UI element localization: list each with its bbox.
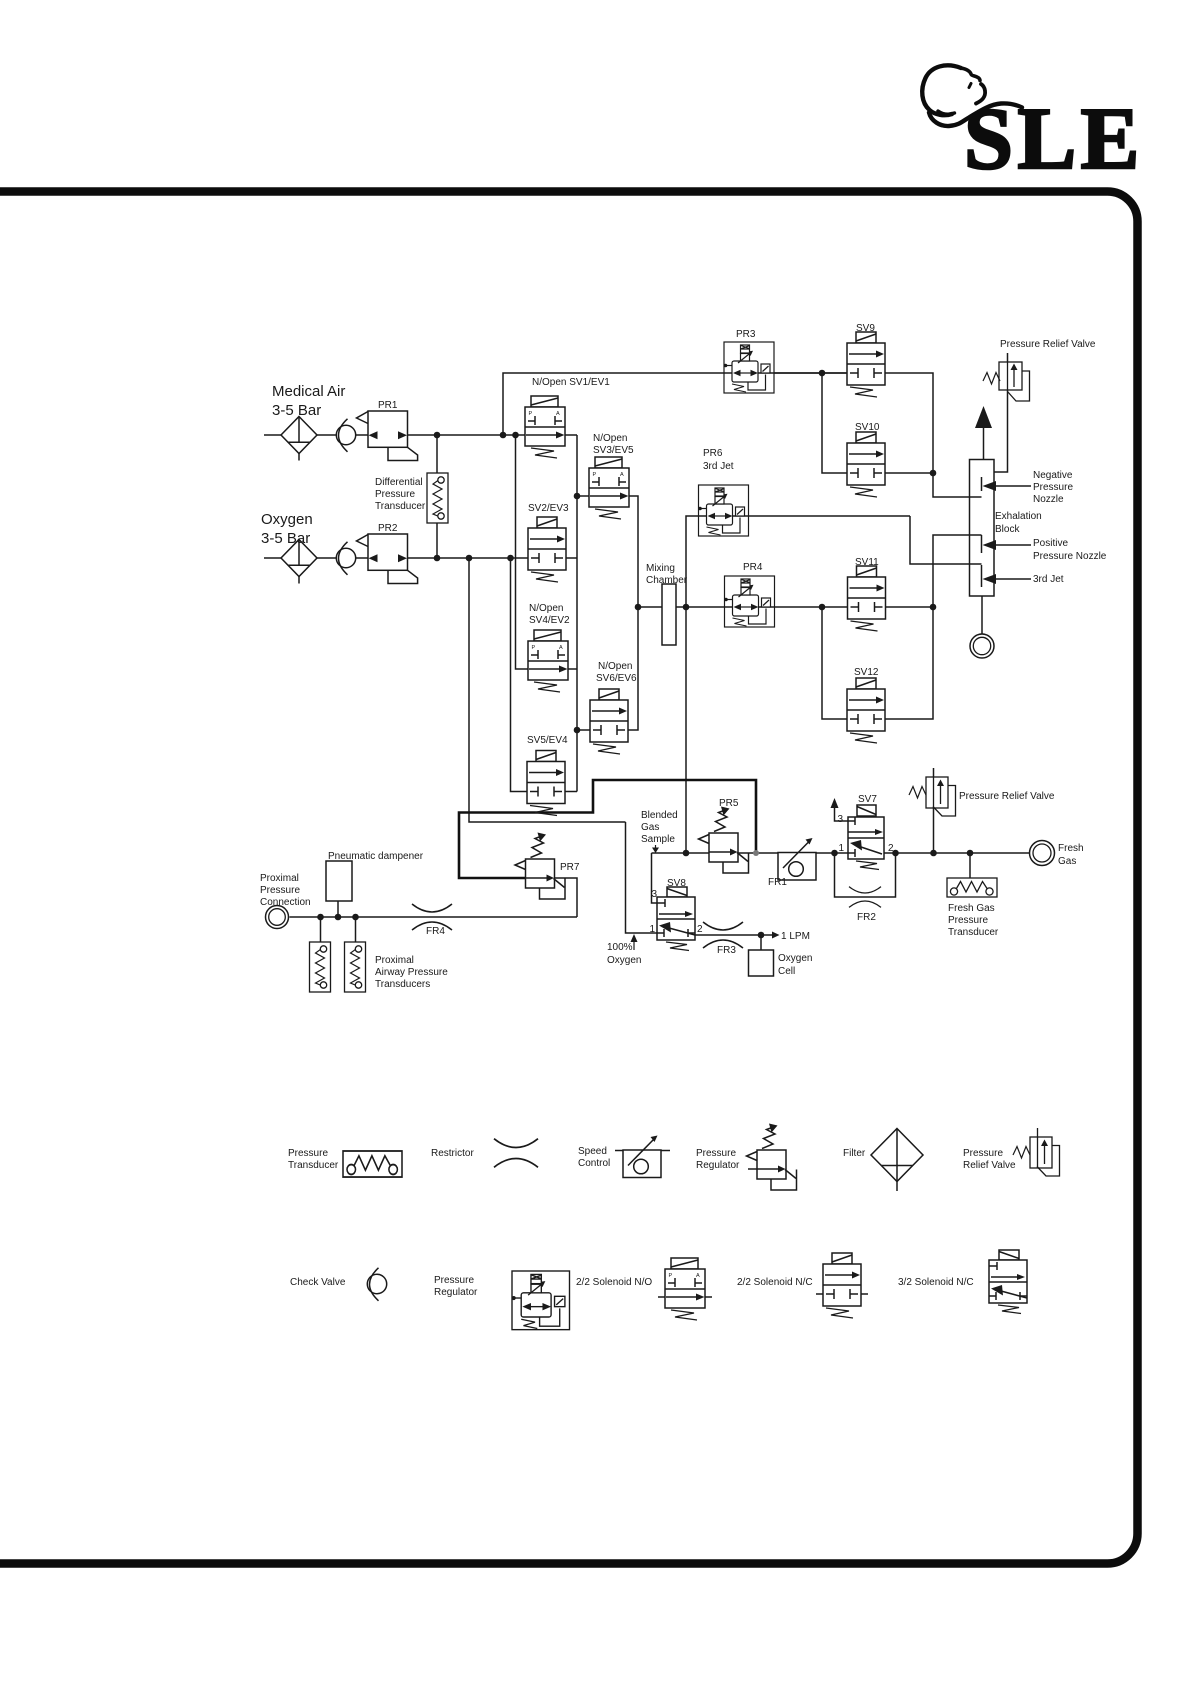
wire PR6 out drop to exhalation block	[910, 516, 982, 564]
svg-text:Pressure: Pressure	[260, 885, 300, 896]
svg-text:3rd Jet: 3rd Jet	[703, 461, 734, 472]
wire oxygen cell stem	[760, 935, 762, 950]
wire SV4 feed vertical	[516, 435, 529, 669]
svg-text:SV7: SV7	[858, 794, 877, 805]
wire positive nozzle feed	[933, 535, 982, 607]
wire relief valve 1 drop to block	[994, 353, 1008, 472]
svg-text:FR1: FR1	[768, 877, 787, 888]
3rd jet nozzle	[981, 565, 983, 587]
svg-text:Pressure Relief Valve: Pressure Relief Valve	[959, 791, 1055, 802]
wire SV6 input stub	[577, 729, 590, 731]
check valve CV2 oxygen	[336, 542, 355, 575]
svg-text:2: 2	[697, 924, 703, 935]
svg-text:Transducers: Transducers	[375, 979, 430, 990]
solenoid valve SV11	[848, 566, 886, 631]
svg-text:Regulator: Regulator	[434, 1287, 478, 1298]
solenoid valve SV5	[527, 751, 565, 816]
svg-text:Proximal: Proximal	[375, 955, 414, 966]
filter F2 oxygen	[281, 540, 317, 584]
check valve CV1 medical air	[336, 419, 355, 452]
wire SV12 to mixing line	[885, 607, 933, 719]
wire SV8 port2 out	[695, 934, 772, 936]
svg-text:Pressure: Pressure	[288, 1148, 328, 1159]
svg-text:Gas: Gas	[1058, 856, 1076, 867]
pressure regulator PR3	[724, 342, 774, 393]
svg-text:Filter: Filter	[843, 1148, 866, 1159]
svg-text:Speed: Speed	[578, 1146, 607, 1157]
svg-text:Fresh: Fresh	[1058, 843, 1084, 854]
svg-text:SV4/EV2: SV4/EV2	[529, 615, 570, 626]
svg-text:PR5: PR5	[719, 798, 739, 809]
wire SV9 out	[885, 373, 982, 497]
svg-text:Sample: Sample	[641, 834, 675, 845]
wire PR3 out to SV9	[774, 372, 847, 374]
blended gas sample pointer	[655, 845, 657, 848]
svg-text:3: 3	[837, 814, 843, 825]
svg-text:FR2: FR2	[857, 912, 876, 923]
wire SV1 out vertical distribution	[576, 435, 578, 792]
wire exhalation block vent stem	[983, 426, 985, 460]
svg-text:PR2: PR2	[378, 523, 398, 534]
svg-text:SV10: SV10	[855, 422, 880, 433]
restrictor FR2	[849, 887, 881, 908]
oxygen cell box	[749, 950, 774, 976]
svg-text:SV8: SV8	[667, 878, 686, 889]
fresh gas port circle	[1030, 841, 1055, 866]
differential pressure transducer	[427, 473, 448, 523]
svg-text:Pneumatic dampener: Pneumatic dampener	[328, 851, 424, 862]
svg-text:Mixing: Mixing	[646, 563, 675, 574]
solenoid valve SV2	[528, 517, 566, 582]
svg-text:Pressure: Pressure	[375, 489, 415, 500]
wire medical air line	[264, 434, 577, 436]
svg-text:SV5/EV4: SV5/EV4	[527, 735, 568, 746]
svg-text:SV9: SV9	[856, 323, 875, 334]
svg-text:Fresh Gas: Fresh Gas	[948, 903, 995, 914]
svg-text:PR1: PR1	[378, 400, 398, 411]
pressure regulator PR4	[724, 576, 774, 627]
svg-text:2/2 Solenoid N/C: 2/2 Solenoid N/C	[737, 1277, 813, 1288]
solenoid valve SV12	[847, 678, 885, 743]
svg-text:Negative: Negative	[1033, 470, 1073, 481]
svg-text:3: 3	[651, 889, 657, 900]
svg-text:Blended: Blended	[641, 810, 678, 821]
wire 100% oxygen drop to SV8	[626, 822, 658, 933]
svg-text:Check Valve: Check Valve	[290, 1277, 346, 1288]
svg-text:PR6: PR6	[703, 448, 723, 459]
svg-text:Cell: Cell	[778, 966, 795, 977]
svg-text:PR7: PR7	[560, 862, 580, 873]
svg-text:Oxygen: Oxygen	[778, 953, 812, 964]
svg-text:SV11: SV11	[855, 557, 879, 568]
svg-text:Positive: Positive	[1033, 538, 1068, 549]
svg-text:Relief Valve: Relief Valve	[963, 1160, 1016, 1171]
svg-text:Pressure: Pressure	[1033, 482, 1073, 493]
svg-text:Regulator: Regulator	[696, 1160, 740, 1171]
wire SV5 out stub	[565, 791, 577, 793]
svg-text:3/2 Solenoid N/C: 3/2 Solenoid N/C	[898, 1277, 974, 1288]
solenoid valve SV8	[657, 887, 695, 951]
positive pressure nozzle	[981, 535, 983, 553]
pneumatic dampener	[326, 861, 352, 901]
pressure regulator PR7	[515, 833, 565, 900]
svg-text:Oxygen: Oxygen	[261, 511, 313, 528]
svg-text:Proximal: Proximal	[260, 873, 299, 884]
exhalation vent arrow	[975, 406, 992, 428]
wire PR7 thick supply	[459, 780, 756, 878]
wire blended gas drop	[685, 607, 687, 853]
filter F1 medical air	[281, 417, 317, 461]
wire fresh gas line	[652, 852, 1030, 854]
svg-text:Gas: Gas	[641, 822, 659, 833]
wire SV7 port3 exhaust	[835, 806, 849, 821]
svg-text:1 LPM: 1 LPM	[781, 931, 810, 942]
wire SV3 out to mixing chamber riser	[628, 496, 638, 730]
svg-text:Exhalation: Exhalation	[995, 511, 1042, 522]
svg-text:Control: Control	[578, 1158, 610, 1169]
solenoid valve SV9	[847, 332, 885, 397]
svg-text:Transducer: Transducer	[948, 927, 999, 938]
svg-text:SLE: SLE	[964, 91, 1144, 188]
svg-text:Connection: Connection	[260, 897, 311, 908]
svg-text:Pressure Relief Valve: Pressure Relief Valve	[1000, 339, 1096, 350]
SLE logo baby-head swoosh	[922, 65, 1022, 126]
wire mixing chamber line to SV11	[638, 606, 933, 608]
pressure relief valve 2	[909, 777, 956, 816]
svg-text:100%: 100%	[607, 942, 633, 953]
wire SV10 out stub	[885, 472, 933, 474]
fresh gas pressure transducer	[947, 878, 997, 897]
1 LPM arrowhead	[772, 932, 780, 939]
proximal airway pressure transducer 2	[345, 942, 366, 992]
wire dampener stem	[337, 901, 339, 917]
wire differential transducer branch	[436, 435, 438, 558]
svg-text:SV12: SV12	[854, 667, 879, 678]
mixing chamber	[662, 584, 676, 645]
svg-text:N/Open: N/Open	[529, 603, 563, 614]
wire SV5 feed vertical	[511, 558, 528, 792]
speed control FR1	[778, 838, 816, 880]
svg-text:3rd Jet: 3rd Jet	[1033, 574, 1064, 585]
solenoid valve SV1	[525, 396, 565, 458]
svg-text:Differential: Differential	[375, 477, 423, 488]
negative pressure nozzle	[981, 477, 983, 491]
svg-text:FR3: FR3	[717, 945, 736, 956]
proximal airway pressure transducer 1	[310, 942, 331, 992]
svg-text:SV2/EV3: SV2/EV3	[528, 503, 569, 514]
svg-text:Pressure: Pressure	[948, 915, 988, 926]
pressure regulator PR6	[698, 485, 748, 536]
wire relief valve 2 drop	[933, 768, 935, 853]
wire SV3 input stub	[577, 495, 589, 497]
100% oxygen pointer	[633, 941, 635, 950]
svg-text:1: 1	[649, 924, 655, 935]
svg-text:Airway Pressure: Airway Pressure	[375, 967, 448, 978]
wire proximal transducer stems	[321, 917, 356, 942]
wire proximal line	[290, 916, 578, 918]
rounded border frame	[0, 192, 1138, 1564]
svg-text:Restrictor: Restrictor	[431, 1148, 474, 1159]
svg-text:3-5 Bar: 3-5 Bar	[261, 530, 310, 547]
svg-text:1: 1	[838, 843, 844, 854]
svg-text:Pressure: Pressure	[963, 1148, 1003, 1159]
solenoid valve SV3	[589, 457, 629, 519]
junction dots	[500, 432, 507, 439]
svg-text:Transducer: Transducer	[288, 1160, 339, 1171]
svg-text:Pressure: Pressure	[434, 1275, 474, 1286]
svg-text:Pressure: Pressure	[696, 1148, 736, 1159]
svg-text:2/2 Solenoid N/O: 2/2 Solenoid N/O	[576, 1277, 652, 1288]
wire FR2 bypass loop	[835, 853, 896, 897]
pressure regulator PR5	[699, 807, 749, 874]
wire blended sample drop to SV8 port3	[652, 853, 658, 903]
svg-text:PR4: PR4	[743, 562, 763, 573]
solenoid valve SV6	[590, 689, 628, 754]
SV7 port3 exhaust arrowhead	[831, 798, 839, 808]
svg-text:Transducer: Transducer	[375, 501, 426, 512]
solenoid valve SV7	[848, 805, 884, 870]
svg-text:Nozzle: Nozzle	[1033, 494, 1064, 505]
svg-text:SV3/EV5: SV3/EV5	[593, 445, 634, 456]
wire PR6 feed riser	[686, 516, 910, 607]
wire fresh gas transducer branch	[969, 853, 971, 878]
svg-text:Block: Block	[995, 524, 1020, 535]
wire oxygen line	[264, 557, 577, 559]
pressure regulator PR2	[357, 534, 418, 584]
svg-text:3-5 Bar: 3-5 Bar	[272, 402, 321, 419]
solenoid valve SV10	[847, 432, 885, 497]
svg-text:Oxygen: Oxygen	[607, 955, 641, 966]
pressure relief valve 1	[983, 362, 1030, 401]
svg-text:PR3: PR3	[736, 329, 756, 340]
wire block to patient port	[981, 596, 983, 634]
wire SV9 SV10 left link	[822, 373, 847, 473]
restrictor FR4	[412, 904, 452, 930]
svg-text:Chamber: Chamber	[646, 575, 688, 586]
wire PR7 out to proximal line	[554, 878, 577, 917]
solenoid valve SV4	[528, 630, 568, 692]
svg-text:Pressure Nozzle: Pressure Nozzle	[1033, 551, 1107, 562]
wire medical to PR3 riser and PR3 line	[503, 373, 847, 435]
pressure regulator PR1	[357, 411, 418, 461]
wire SV4 out stub	[568, 668, 577, 670]
svg-text:N/Open: N/Open	[593, 433, 627, 444]
proximal pressure connection circle	[266, 906, 289, 929]
svg-text:N/Open: N/Open	[598, 661, 632, 672]
svg-text:Medical Air: Medical Air	[272, 383, 345, 400]
wire SV11 SV12 left link	[822, 607, 847, 719]
wire oxygen 100% feed	[469, 558, 626, 822]
svg-text:N/Open SV1/EV1: N/Open SV1/EV1	[532, 377, 610, 388]
svg-text:FR4: FR4	[426, 926, 445, 937]
svg-text:SV6/EV6: SV6/EV6	[596, 673, 637, 684]
restrictor FR3	[703, 922, 743, 948]
exhalation block	[970, 460, 995, 597]
patient port circle	[970, 634, 994, 658]
